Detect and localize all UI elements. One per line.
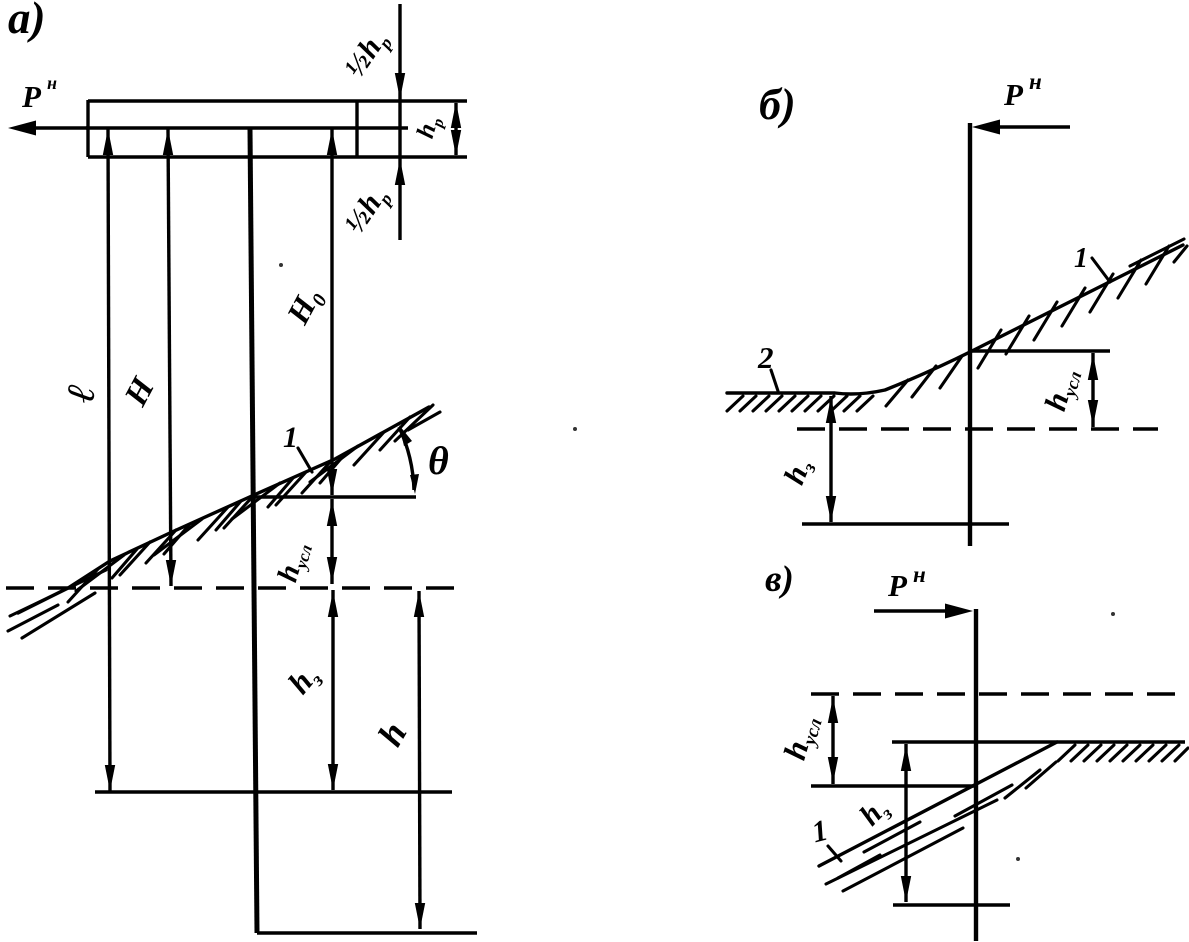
ground slope line 1 (fig v) — [819, 742, 1057, 866]
svg-text:в): в) — [765, 559, 794, 600]
leader line for label 1 (fig v) — [828, 846, 841, 861]
label h3 (fig v) — [853, 791, 897, 835]
svg-text:б): б) — [759, 80, 796, 129]
theta angle arc — [399, 425, 419, 494]
slope tail parallel stroke 3 — [22, 593, 95, 638]
slope hatching (fig a) — [68, 405, 433, 602]
ground slope line 1 (fig b) — [727, 245, 1183, 394]
svg-text:Р: Р — [887, 568, 908, 603]
dimension line h_usl (fig v) — [828, 696, 838, 784]
theta reference horizontal line — [255, 495, 416, 498]
crossarm top line — [88, 99, 467, 102]
label hp — [412, 113, 448, 143]
scan speck 2 — [1111, 612, 1115, 616]
label L script ell — [57, 381, 104, 406]
groundwater dashed line (fig v) — [811, 692, 1185, 695]
svg-text:1: 1 — [283, 421, 298, 454]
label 1 (fig v) — [809, 814, 832, 850]
dimension line L — [103, 129, 115, 791]
slope tail parallel stroke 2 — [8, 605, 58, 631]
label 1/2 hp upper — [338, 24, 396, 85]
svg-text:а): а) — [8, 0, 46, 43]
flat ground hatching (fig b) — [727, 396, 873, 411]
svg-text:н: н — [1029, 69, 1042, 94]
label h (fig a) — [370, 715, 415, 752]
svg-text:Р: Р — [21, 79, 42, 114]
dimension line h_usl (fig b) — [1088, 353, 1098, 427]
svg-text:н: н — [47, 73, 57, 93]
dimension line h3 (fig b) — [826, 396, 836, 522]
pole (fig v) — [974, 609, 978, 941]
label h_usl (fig v) — [776, 711, 827, 765]
slope hatching (fig b) — [978, 239, 1187, 368]
label H — [118, 371, 163, 413]
crossarm middle load line — [86, 126, 408, 129]
transition hatching (fig b) — [886, 356, 962, 406]
foundation level line (fig a) — [95, 790, 452, 793]
dimension line H — [163, 129, 176, 586]
crossarm separator — [355, 101, 358, 157]
crossarm left edge — [86, 100, 89, 157]
label 1/2 hp lower — [338, 180, 396, 241]
dimension line h3 (fig v) — [901, 744, 911, 902]
pole (fig b) — [968, 123, 972, 546]
slope tip parallel stroke — [408, 412, 440, 430]
force arrow P (fig b) — [972, 120, 1070, 135]
crossarm bottom line — [88, 155, 467, 158]
dimension hp — [451, 102, 461, 156]
pole bottom line (fig v) — [893, 903, 1010, 906]
svg-text:1: 1 — [1074, 243, 1088, 274]
upper ground level line (fig b) — [972, 349, 1110, 352]
leader line for label 1 (fig a) — [298, 448, 312, 472]
scan speck 1 — [573, 427, 577, 431]
label h_usl (fig a) — [271, 538, 316, 586]
dimension line 1/2 hp vertical — [395, 4, 405, 240]
pole bottom line (fig b) — [802, 522, 1009, 525]
scan speck 4 — [279, 263, 283, 267]
label h3 (fig a) — [281, 657, 329, 703]
lower ground level line (fig v) — [811, 784, 977, 787]
force arrow P (fig v) — [874, 604, 973, 619]
upper ground level line (fig v) — [892, 740, 1185, 743]
label h3 (fig b) — [778, 454, 822, 491]
svg-text:Р: Р — [1003, 77, 1024, 112]
groundwater dashed line (fig b) — [797, 427, 1158, 430]
slope tail parallel stroke 1 — [10, 570, 106, 616]
pole (fig a) — [250, 129, 257, 933]
label h_usl (fig b) — [1037, 364, 1085, 415]
label H0 — [279, 282, 332, 333]
svg-text:θ: θ — [428, 438, 449, 483]
slope hatching (fig v) — [838, 762, 1056, 891]
leader line for label 2 (fig b) — [771, 370, 778, 391]
scan speck 3 — [1016, 857, 1020, 861]
force arrow P (fig a) — [8, 121, 88, 136]
svg-text:н: н — [913, 562, 926, 587]
pole bottom line (fig a) — [257, 931, 477, 934]
dimension line h_usl (fig a) — [327, 499, 337, 584]
groundwater dashed line (fig a) — [6, 586, 460, 589]
ground slope line 1 (fig a) — [18, 407, 429, 613]
leader line for label 1 (fig b) — [1092, 258, 1110, 282]
slope second line (fig v) — [826, 800, 997, 884]
ground hatching right (fig v) — [1058, 745, 1188, 761]
dimension line H0 — [327, 129, 337, 495]
dimension line h3 (fig a) — [328, 590, 338, 790]
dimension line h (fig a) — [414, 591, 425, 929]
